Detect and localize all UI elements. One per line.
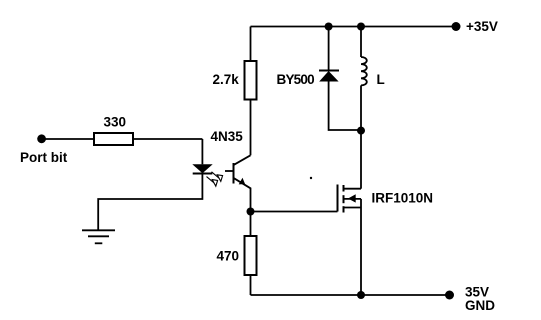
svg-text:330: 330 bbox=[104, 115, 127, 130]
svg-text:470: 470 bbox=[217, 249, 240, 264]
svg-text:BY500: BY500 bbox=[277, 72, 315, 87]
svg-text:2.7k: 2.7k bbox=[213, 72, 240, 87]
svg-text:IRF1010N: IRF1010N bbox=[372, 191, 434, 206]
svg-text:GND: GND bbox=[465, 298, 495, 313]
svg-text:L: L bbox=[377, 72, 385, 87]
svg-text:Port bit: Port bit bbox=[20, 150, 68, 165]
svg-text:+35V: +35V bbox=[466, 19, 498, 34]
svg-text:4N35: 4N35 bbox=[211, 129, 244, 144]
